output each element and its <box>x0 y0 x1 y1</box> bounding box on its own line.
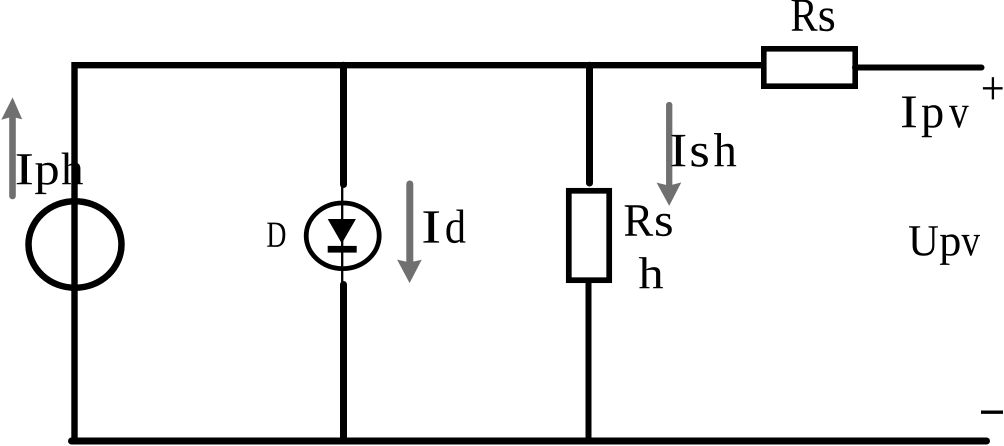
wire: diode branch lower segment <box>340 285 347 442</box>
diode cathode bar <box>328 246 357 253</box>
label Ipv <box>902 97 969 138</box>
label Rs_sh <box>625 205 672 236</box>
diode internal lead wire <box>341 186 343 284</box>
label D <box>267 223 285 247</box>
resistor Rsh body <box>569 191 609 280</box>
current source Iph circle <box>29 201 122 288</box>
arrow Iph (gray, up) <box>1 97 22 196</box>
wire: bottom bus <box>72 438 987 445</box>
label h_sh <box>639 257 663 288</box>
label Iph <box>17 153 83 195</box>
arrow Id (gray, down) <box>397 184 422 283</box>
wire: Rsh branch upper segment <box>586 65 593 183</box>
wire: output lead right of Rs <box>855 65 982 71</box>
label Id <box>423 210 465 244</box>
diode triangle (anode) <box>328 219 356 244</box>
label Ish <box>672 133 737 167</box>
wire: diode branch upper segment <box>340 65 347 184</box>
wire: Rsh branch lower segment <box>586 281 592 441</box>
diode D circle <box>306 203 379 269</box>
wire: top bus from left corner to Rs resistor <box>75 62 765 68</box>
label Rs_top <box>792 0 835 31</box>
label Upv <box>909 226 980 265</box>
minus terminal <box>981 411 1003 414</box>
plus terminal <box>983 77 1003 99</box>
wire: left vertical branch <box>71 62 77 444</box>
arrow Ish (gray, down) <box>657 105 682 206</box>
resistor Rs body <box>764 49 855 86</box>
